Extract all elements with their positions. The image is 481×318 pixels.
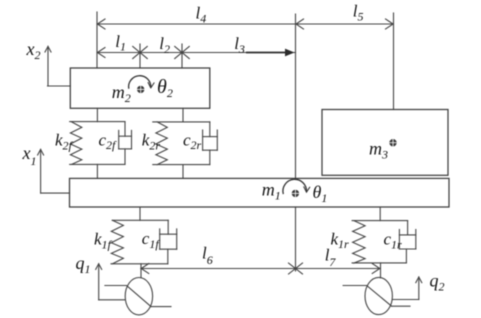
- svg-text:l1: l1: [115, 32, 126, 54]
- svg-text:θ2: θ2: [157, 76, 173, 100]
- svg-text:k2f: k2f: [55, 131, 74, 153]
- svg-text:θ1: θ1: [313, 182, 328, 205]
- svg-text:l6: l6: [202, 244, 213, 268]
- svg-text:q2: q2: [430, 271, 445, 294]
- svg-text:l3: l3: [234, 34, 245, 56]
- svg-text:k1r: k1r: [331, 229, 350, 251]
- svg-text:l7: l7: [325, 246, 337, 269]
- svg-text:l2: l2: [159, 34, 170, 56]
- svg-text:x2: x2: [26, 39, 41, 62]
- svg-text:x1: x1: [22, 143, 37, 168]
- svg-text:c2r: c2r: [183, 130, 202, 152]
- svg-text:l4: l4: [196, 4, 207, 26]
- svg-text:c2f: c2f: [99, 130, 118, 152]
- svg-text:l5: l5: [353, 2, 364, 24]
- svg-text:m3: m3: [369, 139, 388, 162]
- svg-text:k1f: k1f: [94, 230, 113, 252]
- svg-text:q1: q1: [76, 253, 91, 276]
- svg-text:m1: m1: [262, 180, 281, 203]
- svg-text:c1f: c1f: [142, 229, 161, 251]
- svg-text:m2: m2: [112, 82, 131, 105]
